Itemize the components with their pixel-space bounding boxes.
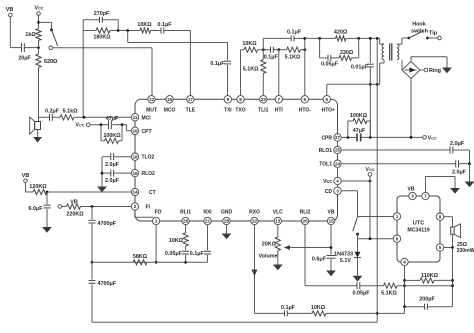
- node: [262, 48, 265, 51]
- capacitor 0.1uF (RXI): [190, 225, 211, 263]
- svg-text:13: 13: [275, 219, 281, 224]
- svg-text:220KΩ: 220KΩ: [66, 212, 84, 218]
- svg-text:270pF: 270pF: [94, 11, 110, 17]
- node: [376, 312, 379, 315]
- svg-text:4700pF: 4700pF: [98, 221, 117, 227]
- svg-text:7: 7: [424, 194, 427, 199]
- svg-text:620Ω: 620Ω: [44, 59, 58, 65]
- capacitor 0.1uF (mid): [264, 47, 279, 61]
- svg-text:4700μF: 4700μF: [98, 281, 117, 287]
- svg-text:0.05μF: 0.05μF: [321, 62, 339, 68]
- resistor 100K (CPT): [101, 125, 122, 144]
- capacitor 0.6uF (VB): [312, 256, 336, 263]
- svg-text:CPT: CPT: [142, 129, 152, 135]
- svg-text:0.1μF: 0.1μF: [264, 55, 279, 61]
- terminal Ring: [420, 68, 441, 74]
- node: [369, 180, 372, 183]
- node: [369, 136, 372, 139]
- svg-text:Ring: Ring: [429, 68, 441, 74]
- wire CT line: [47, 191, 131, 193]
- ground (mic): [33, 130, 42, 143]
- capacitor 0.1uF (TXI): [210, 61, 231, 96]
- svg-text:FO: FO: [155, 210, 162, 216]
- svg-text:330Ω: 330Ω: [340, 50, 354, 56]
- resistor 5.1K (in): [360, 283, 453, 297]
- svg-text:Volume: Volume: [258, 254, 277, 260]
- node: [100, 123, 103, 126]
- svg-text:12: 12: [149, 97, 155, 102]
- wire speaker to pin5: [444, 234, 453, 247]
- svg-text:1: 1: [155, 219, 158, 224]
- node: [468, 162, 471, 165]
- resistor 330: [331, 38, 359, 60]
- svg-text:5.1kΩ: 5.1kΩ: [63, 108, 78, 114]
- svg-text:20μF: 20μF: [18, 56, 31, 62]
- svg-text:19: 19: [132, 171, 138, 176]
- capacitor 2.0uF (TOL1): [452, 160, 467, 175]
- power terminal Vcc: [34, 6, 43, 29]
- wire to pin 16: [111, 125, 131, 131]
- capacitor 2.0uF (TLO2): [102, 153, 131, 168]
- capacitor 6.0uF: [28, 192, 50, 212]
- wire VB column: [330, 225, 332, 255]
- svg-text:TXO: TXO: [235, 107, 245, 113]
- node: [303, 48, 306, 51]
- svg-text:CPR: CPR: [321, 135, 332, 141]
- svg-text:0.1μF: 0.1μF: [190, 251, 205, 257]
- svg-text:0.1μF: 0.1μF: [281, 305, 296, 311]
- svg-text:0.2μF: 0.2μF: [45, 108, 60, 114]
- node: [410, 136, 413, 139]
- svg-text:5.1KΩ: 5.1KΩ: [285, 55, 301, 61]
- capacitor 4700pF: [89, 207, 117, 228]
- wire pin7 to ground: [426, 177, 456, 193]
- transformer T1: [380, 38, 402, 84]
- svg-text:5: 5: [326, 97, 329, 102]
- svg-text:switch: switch: [411, 28, 428, 34]
- resistor 5.1K (H): [285, 47, 301, 60]
- pin 7 U2: [422, 192, 429, 199]
- wire: [453, 150, 470, 164]
- svg-text:RLI1: RLI1: [180, 210, 191, 216]
- capacitor 0.1uF (TLE): [157, 22, 172, 34]
- ground (TLO2/RLO2): [97, 187, 107, 193]
- node A: [126, 29, 129, 32]
- wire bottom-left rail: [92, 284, 377, 322]
- svg-text:2.0μF: 2.0μF: [105, 178, 120, 184]
- node: [37, 46, 40, 49]
- pins bottom row U1: [152, 210, 334, 225]
- svg-text:2: 2: [134, 204, 137, 209]
- resistor 180K: [83, 20, 118, 41]
- ground (zener): [353, 258, 363, 282]
- svg-text:47μF: 47μF: [106, 116, 119, 122]
- resistor 620: [36, 41, 58, 68]
- svg-text:10KΩ: 10KΩ: [169, 238, 184, 244]
- svg-text:0.01μF: 0.01μF: [351, 65, 369, 71]
- svg-text:0.1μF: 0.1μF: [210, 61, 225, 67]
- svg-text:MUT: MUT: [146, 107, 157, 113]
- microphone MK1: [30, 117, 41, 134]
- svg-text:0.6μF: 0.6μF: [312, 256, 327, 262]
- svg-text:11: 11: [133, 115, 138, 120]
- wire node column: [82, 20, 84, 118]
- svg-text:3: 3: [411, 194, 414, 199]
- svg-text:100KΩ: 100KΩ: [103, 133, 121, 139]
- capacitor 20uF: [18, 43, 38, 61]
- potentiometer 20K Volume: [258, 225, 280, 260]
- pins left column U1: [131, 114, 155, 211]
- svg-text:7: 7: [278, 97, 281, 102]
- wire pin4 column: [404, 266, 406, 307]
- node: [451, 284, 454, 287]
- svg-text:20: 20: [302, 219, 308, 224]
- node: [101, 172, 104, 175]
- terminal Tip: [426, 31, 441, 40]
- wire TXI branch: [128, 31, 228, 61]
- resistor 5.1K (V to TLI1): [243, 50, 266, 96]
- svg-text:10KΩ: 10KΩ: [242, 41, 257, 47]
- node: [46, 191, 49, 194]
- node: [451, 279, 454, 282]
- svg-text:15: 15: [167, 97, 173, 102]
- pin 3 U2: [408, 186, 417, 199]
- resistor 100K (CPR): [348, 113, 371, 137]
- power terminal Vcc (CPT): [76, 123, 109, 129]
- wire RLO1 line: [341, 149, 450, 151]
- svg-text:Hook: Hook: [412, 22, 425, 28]
- resistor 420: [334, 30, 348, 41]
- svg-text:MCI: MCI: [142, 115, 152, 121]
- node: [403, 305, 406, 308]
- capacitor 0.01uF: [351, 37, 374, 137]
- svg-text:3: 3: [336, 189, 339, 194]
- wire: [10, 47, 21, 49]
- resistor 1k: [25, 29, 41, 41]
- node: [369, 237, 372, 240]
- svg-text:RLI2: RLI2: [300, 210, 311, 216]
- svg-text:Tip: Tip: [429, 31, 438, 37]
- svg-text:20KΩ: 20KΩ: [262, 241, 277, 247]
- svg-text:47μF: 47μF: [353, 128, 366, 134]
- op-amp U1 MC34118 box: [135, 99, 338, 221]
- capacitor 47uF (CPT): [106, 116, 119, 129]
- ground (pin7): [450, 188, 460, 194]
- resistor 220K: [66, 204, 84, 218]
- node: [91, 205, 94, 208]
- resistor 58K: [133, 254, 148, 265]
- node: [403, 279, 406, 282]
- svg-text:4: 4: [336, 179, 339, 184]
- svg-text:9: 9: [227, 97, 230, 102]
- op-amp U2 MC34119 box: [397, 196, 440, 262]
- svg-text:HTO+: HTO+: [322, 107, 335, 113]
- svg-text:RXO: RXO: [249, 210, 260, 216]
- svg-text:26: 26: [183, 219, 189, 224]
- svg-text:5.1KΩ: 5.1KΩ: [381, 291, 397, 297]
- svg-text:10KΩ: 10KΩ: [311, 305, 326, 311]
- svg-text:8: 8: [439, 214, 442, 219]
- capacitor 0.05uF (RLI1): [165, 246, 189, 262]
- pin 8 U2: [436, 213, 443, 220]
- capacitor 47uF (CPR): [353, 128, 366, 142]
- capacitor 270pF: [83, 11, 118, 23]
- power terminal VB (FI): [58, 199, 78, 208]
- wire mute line to pin 12: [53, 48, 152, 96]
- ground (volume): [273, 251, 283, 271]
- node: [451, 246, 454, 249]
- pin 4 U2: [401, 258, 408, 265]
- svg-text:18: 18: [132, 154, 138, 159]
- node: [346, 136, 349, 139]
- speaker LS1: [451, 224, 461, 238]
- capacitor 0.2uF: [45, 108, 60, 121]
- svg-text:VB: VB: [328, 210, 335, 216]
- svg-text:UTC: UTC: [413, 221, 425, 227]
- wire mic column: [38, 68, 40, 122]
- wire RLI2 column: [305, 225, 357, 286]
- wiper arrow: [284, 245, 331, 250]
- svg-text:0.1μF: 0.1μF: [157, 22, 172, 28]
- power terminal VB (CT): [22, 173, 33, 192]
- svg-text:MCO: MCO: [164, 107, 176, 113]
- wire long column: [376, 37, 379, 322]
- capacitor 4700uF: [89, 262, 117, 287]
- wire Vcc column: [369, 181, 371, 239]
- switch S3 (CD): [353, 217, 359, 239]
- node: [330, 246, 333, 249]
- arrow (signal down): [252, 270, 258, 277]
- svg-text:17: 17: [188, 97, 194, 102]
- wire: [301, 49, 305, 51]
- svg-text:TXI: TXI: [224, 107, 232, 113]
- capacitor 2.0uF (RLO1): [450, 141, 465, 153]
- svg-text:10KΩ: 10KΩ: [137, 22, 152, 28]
- switch S1 (mute): [49, 29, 58, 50]
- pin 6 U2: [393, 235, 400, 242]
- power terminal VB (top left): [6, 7, 14, 48]
- ground (VB): [326, 259, 336, 276]
- ground (6.0uF): [42, 209, 52, 233]
- svg-text:VB: VB: [6, 7, 14, 13]
- wire: [39, 116, 50, 118]
- resistor 110K: [405, 273, 453, 283]
- wire FI-FO jumper: [135, 210, 153, 218]
- node: [121, 123, 124, 126]
- wire to mute switch: [39, 22, 52, 30]
- svg-text:180KΩ: 180KΩ: [93, 35, 111, 41]
- svg-text:21: 21: [205, 219, 211, 224]
- svg-text:1kΩ: 1kΩ: [25, 32, 36, 38]
- wire pin7 column: [278, 50, 280, 96]
- wire pin6 column: [303, 37, 306, 96]
- svg-text:TLI1: TLI1: [258, 107, 268, 113]
- svg-text:23: 23: [261, 97, 267, 102]
- node Vcc junction: [37, 21, 40, 24]
- pins top row U1: [146, 96, 335, 114]
- svg-text:24: 24: [335, 161, 341, 166]
- wire to pin 1 U2: [358, 216, 394, 218]
- wire FO column: [155, 225, 158, 264]
- ground (2.0uF): [465, 164, 474, 188]
- svg-text:CT: CT: [149, 190, 156, 196]
- power terminal Vcc (rail): [423, 136, 437, 142]
- node: [318, 37, 321, 40]
- svg-text:5.1KΩ: 5.1KΩ: [243, 67, 259, 73]
- wire HTO+ rail: [327, 84, 380, 95]
- svg-text:6.0μF: 6.0μF: [28, 206, 43, 212]
- svg-text:2.0μF: 2.0μF: [105, 162, 120, 168]
- resistor 5.1k: [52, 108, 78, 120]
- node: [357, 37, 360, 40]
- wire: [258, 49, 271, 51]
- svg-text:4: 4: [403, 260, 406, 265]
- svg-text:2.0μF: 2.0μF: [452, 169, 467, 175]
- svg-text:1N4733: 1N4733: [334, 251, 353, 257]
- wire top rail: [305, 37, 380, 39]
- ground (pin 28 GND): [222, 225, 232, 240]
- svg-text:TLO2: TLO2: [142, 155, 155, 161]
- wire CPR rail: [341, 136, 423, 138]
- svg-text:0.05μF: 0.05μF: [165, 251, 183, 257]
- wire to pin 17: [164, 31, 191, 96]
- wire output column: [452, 248, 454, 307]
- svg-text:HTO-: HTO-: [299, 107, 311, 113]
- pin 1 U2: [393, 213, 400, 220]
- svg-text:330mW: 330mW: [457, 248, 474, 254]
- svg-text:Vcc: Vcc: [323, 179, 332, 185]
- svg-text:CD: CD: [325, 189, 333, 195]
- node: [83, 116, 86, 119]
- svg-text:1: 1: [396, 214, 399, 219]
- capacitor 0.1uF (top): [263, 30, 305, 50]
- ground (ring): [411, 57, 452, 74]
- pins right column U1: [319, 134, 342, 195]
- svg-text:100KΩ: 100KΩ: [350, 113, 368, 119]
- wire CD line: [341, 191, 357, 217]
- node: [403, 284, 406, 287]
- svg-text:HTI: HTI: [275, 107, 284, 113]
- svg-text:200pF: 200pF: [419, 296, 435, 302]
- node: [91, 261, 94, 264]
- resistor 10K (RXO): [287, 305, 404, 316]
- wire to pin 11 MCI: [74, 116, 131, 118]
- resistor 120K: [29, 184, 47, 195]
- wire bottom rail: [92, 261, 208, 263]
- svg-text:MC34119: MC34119: [407, 227, 429, 233]
- svg-text:110KΩ: 110KΩ: [421, 273, 439, 279]
- svg-text:5.1V: 5.1V: [340, 258, 351, 264]
- node: [273, 48, 286, 51]
- bridge rectifier (polarity guard): [402, 62, 420, 79]
- svg-text:15: 15: [328, 219, 334, 224]
- svg-text:RLO2: RLO2: [142, 171, 156, 177]
- label speaker: [457, 242, 474, 254]
- node: [376, 83, 379, 86]
- wire bridge to Vcc rail: [410, 79, 412, 138]
- capacitor 0.05uF (in): [352, 282, 370, 296]
- svg-text:58KΩ: 58KΩ: [133, 254, 148, 260]
- pin 5 U2: [436, 244, 443, 251]
- wire pin8 column: [241, 50, 245, 96]
- resistor 10K (RLI1): [169, 225, 188, 246]
- capacitor 200pF: [405, 296, 453, 309]
- svg-text:28: 28: [224, 219, 230, 224]
- node: [184, 261, 187, 264]
- capacitor 2.0uF (RLO2): [102, 170, 131, 184]
- wire TOL1 line: [341, 163, 456, 165]
- svg-text:VB: VB: [408, 186, 415, 192]
- svg-text:14: 14: [132, 190, 138, 195]
- svg-text:RLO1: RLO1: [319, 148, 333, 154]
- wire: [118, 30, 140, 32]
- capacitor 0.1uF (RXO): [255, 305, 296, 316]
- capacitor 0.05uF (line): [320, 38, 339, 67]
- svg-text:RXI: RXI: [203, 210, 212, 216]
- wire to pin 6 U2: [358, 238, 394, 240]
- svg-text:TLE: TLE: [186, 107, 196, 113]
- resistor 10K: [137, 22, 152, 33]
- svg-text:0.1μF: 0.1μF: [287, 30, 302, 36]
- svg-text:TOL1: TOL1: [319, 162, 332, 168]
- svg-text:VLC: VLC: [273, 210, 283, 216]
- diode D1 1N4733: [334, 239, 361, 264]
- wire pin8 to speaker: [444, 217, 453, 227]
- svg-text:8: 8: [239, 97, 242, 102]
- wire: [101, 157, 103, 187]
- svg-text:2.0μF: 2.0μF: [450, 141, 465, 147]
- wire: [91, 224, 93, 262]
- svg-text:GND: GND: [221, 210, 233, 216]
- svg-text:120KΩ: 120KΩ: [29, 184, 47, 190]
- svg-text:0.05μF: 0.05μF: [352, 291, 370, 297]
- wire RXO column: [254, 225, 256, 314]
- power terminal Vcc (IC1): [366, 167, 375, 181]
- svg-text:6: 6: [304, 97, 307, 102]
- svg-text:420Ω: 420Ω: [334, 30, 348, 36]
- switch S2 hook: [402, 22, 428, 40]
- wire to pin 2 FI: [81, 206, 132, 208]
- svg-text:FI: FI: [146, 205, 151, 211]
- svg-text:27: 27: [335, 135, 341, 140]
- wire: [151, 30, 162, 32]
- svg-text:5: 5: [439, 245, 442, 250]
- svg-text:6: 6: [396, 236, 399, 241]
- node: [117, 29, 120, 32]
- resistor 10K (TXO): [242, 41, 257, 52]
- wire: [459, 163, 470, 165]
- wire Vcc pin4 line: [341, 180, 370, 182]
- svg-text:VB: VB: [22, 173, 30, 179]
- svg-text:25: 25: [335, 148, 341, 153]
- svg-text:22: 22: [252, 219, 258, 224]
- svg-text:16: 16: [132, 129, 138, 134]
